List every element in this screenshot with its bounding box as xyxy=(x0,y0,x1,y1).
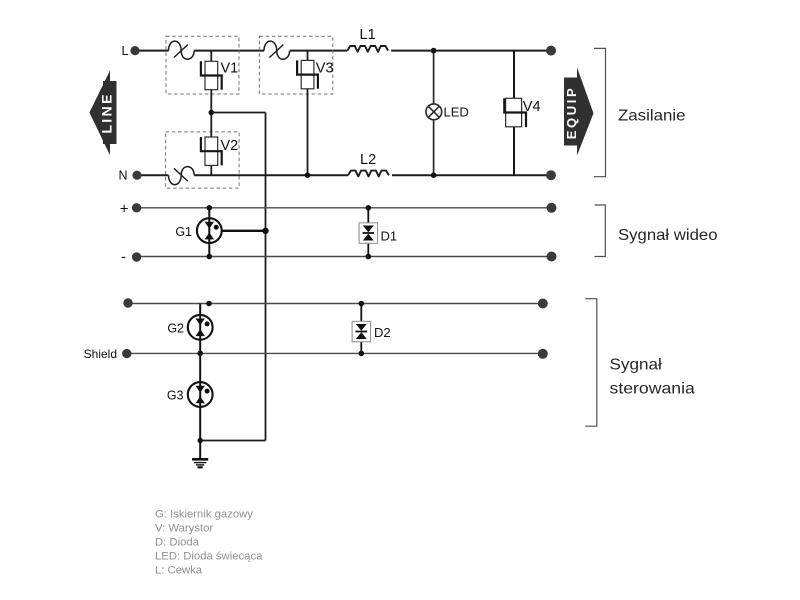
varistor V3 xyxy=(297,60,318,88)
terminal dot N left xyxy=(132,171,141,180)
legend xyxy=(155,508,263,576)
svg-text:V4: V4 xyxy=(523,99,541,115)
LED lamp xyxy=(426,104,442,120)
svg-text:G2: G2 xyxy=(167,322,184,336)
svg-text:LED: LED xyxy=(444,105,469,120)
wire V4 branch xyxy=(513,51,515,99)
wire V1 branch top xyxy=(210,51,212,62)
svg-text:sterowania: sterowania xyxy=(610,381,695,398)
svg-text:Sygnał: Sygnał xyxy=(610,357,663,374)
wire V3 bottom to N xyxy=(307,89,309,175)
svg-text:G: Iskiernik gazowy: G: Iskiernik gazowy xyxy=(155,508,253,520)
svg-text:L: Cewka: L: Cewka xyxy=(155,564,203,576)
terminal dot + right xyxy=(547,203,557,213)
bracket Sygnal sterowania xyxy=(585,299,597,427)
node G1-vertical junction xyxy=(262,228,268,234)
wire G2 G3 branch xyxy=(199,304,201,441)
fuse F3 on N xyxy=(169,167,195,185)
arrow LINE xyxy=(89,71,116,156)
svg-text:D1: D1 xyxy=(381,228,398,243)
node G2 shield junction xyxy=(197,351,203,357)
svg-text:Sygnał wideo: Sygnał wideo xyxy=(618,227,718,244)
terminal dot ctrl left xyxy=(123,298,132,307)
terminal dot - right xyxy=(547,252,557,262)
node ctrl rail dot xyxy=(206,301,212,307)
wire LED branch xyxy=(433,51,435,104)
bracket Sygnal wideo xyxy=(595,205,606,257)
dashed box fuse3+V2 xyxy=(166,132,240,188)
svg-text:Zasilanie: Zasilanie xyxy=(618,107,686,124)
svg-text:D: Dioda: D: Dioda xyxy=(155,536,200,548)
wire D1 branch xyxy=(367,208,369,257)
node LED bottom xyxy=(431,172,437,178)
terminal dot shield left xyxy=(122,349,131,358)
inductor L2 xyxy=(348,171,389,177)
wire V2 bottom xyxy=(210,165,212,175)
node V3-N junction xyxy=(305,172,311,178)
svg-text:L1: L1 xyxy=(360,27,376,43)
gas tube G3 xyxy=(188,382,213,407)
node D2 top xyxy=(359,301,365,307)
wire shield rail xyxy=(131,352,543,354)
svg-text:L: L xyxy=(122,44,129,58)
wire junction to long vertical xyxy=(211,112,265,114)
arrow EQUIP xyxy=(564,67,594,155)
svg-text:LED: Dioda świecąca: LED: Dioda świecąca xyxy=(155,550,263,562)
terminal dot L right xyxy=(546,46,556,56)
dashed box fuse1+V1 xyxy=(166,36,239,94)
wire to ground xyxy=(199,441,201,459)
wire V3 branch top xyxy=(307,51,309,61)
gas tube G1 xyxy=(197,218,222,243)
wire G1 branch xyxy=(208,208,210,257)
fuse F2 on L xyxy=(264,41,290,59)
svg-text:L2: L2 xyxy=(360,152,376,168)
terminal dot L left xyxy=(130,46,139,55)
dashed box fuse2+V3 xyxy=(259,36,332,94)
wire ground horizontal xyxy=(200,440,265,442)
wire G1 middle electrode xyxy=(222,230,266,232)
terminal dot ctrl right xyxy=(538,299,548,309)
svg-text:V2: V2 xyxy=(221,138,239,154)
svg-text:N: N xyxy=(118,169,127,183)
varistor V2 xyxy=(201,137,222,165)
wire N rail segments xyxy=(141,174,551,176)
node D1 top xyxy=(366,205,372,211)
wire + rail xyxy=(141,207,551,209)
diode D1 xyxy=(359,223,378,244)
terminal dot - left xyxy=(132,252,141,261)
node G1 bottom xyxy=(207,254,213,260)
wire control top rail xyxy=(132,303,543,305)
svg-text:D2: D2 xyxy=(374,325,391,340)
svg-text:EQUIP: EQUIP xyxy=(564,86,579,139)
node ground junction xyxy=(198,438,203,443)
terminal dot shield right xyxy=(538,349,548,359)
svg-text:G3: G3 xyxy=(167,389,184,403)
gas tube G2 xyxy=(188,315,213,340)
ground xyxy=(192,459,208,467)
wire L rail segments xyxy=(139,50,551,52)
node LED top xyxy=(431,48,437,54)
bracket Zasilanie xyxy=(594,48,606,176)
svg-text:V1: V1 xyxy=(221,60,239,76)
svg-text:G1: G1 xyxy=(175,225,192,239)
node G1 top xyxy=(207,205,213,211)
terminal dot N right xyxy=(546,170,556,180)
node V1/V2 junction xyxy=(209,110,215,116)
svg-text:-: - xyxy=(121,249,126,266)
terminal dot + left xyxy=(132,203,141,212)
inductor L1 xyxy=(347,46,388,52)
svg-text:V3: V3 xyxy=(316,60,334,76)
fuse F1 on L xyxy=(169,41,195,59)
varistor V4 xyxy=(504,98,526,127)
node D1 bottom xyxy=(366,254,372,260)
svg-text:LINE: LINE xyxy=(100,92,116,134)
svg-text:Shield: Shield xyxy=(84,347,117,361)
node D2 bottom xyxy=(359,351,365,357)
wire - rail xyxy=(141,256,551,258)
svg-text:V: Warystor: V: Warystor xyxy=(155,522,213,534)
diode D2 xyxy=(352,321,371,342)
wire D2 branch xyxy=(360,304,362,354)
wire long vertical to ground xyxy=(265,113,267,441)
varistor V1 xyxy=(201,61,222,89)
svg-text:+: + xyxy=(120,200,129,217)
wire V1 to junction xyxy=(210,90,212,137)
